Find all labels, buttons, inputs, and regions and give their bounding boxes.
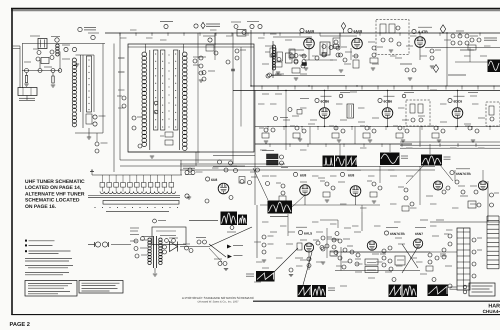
hold control box	[389, 256, 405, 271]
sound tube V3 leads	[290, 49, 309, 61]
misc value labels	[254, 40, 487, 286]
agc tube label	[296, 227, 312, 235]
audio det comps	[380, 24, 401, 52]
mixer tube V2	[203, 36, 218, 55]
rowA right wires	[425, 33, 500, 86]
channel wafer bar1	[88, 196, 180, 198]
power wires	[111, 244, 131, 246]
channel strip top wire	[90, 170, 182, 175]
rowB comps a	[259, 128, 275, 143]
volume diag wire	[210, 226, 252, 246]
tuner bottom comps	[132, 116, 154, 158]
diag X vert	[402, 244, 418, 273]
vmult wires	[430, 170, 500, 222]
power input comps	[134, 239, 147, 258]
rowC bottom wires	[341, 251, 457, 253]
rowA misc text	[400, 64, 466, 80]
IF input comps	[268, 52, 309, 77]
strip right vert	[180, 160, 182, 175]
component row junction	[25, 69, 62, 73]
wire mixer drop	[198, 33, 215, 55]
coil L3 lower	[72, 112, 83, 128]
ground g1	[75, 64, 79, 66]
switch wafer S1C	[161, 50, 165, 130]
rowA junction dots	[250, 32, 447, 86]
sync phase tube V11	[340, 170, 361, 196]
wire vert x233	[198, 33, 233, 164]
IF input coil	[272, 37, 312, 78]
balun T1	[38, 39, 47, 49]
cap C6 top	[231, 22, 241, 29]
svg-text:CHUA4•: CHUA4•	[483, 309, 500, 314]
mixer coil L4 ladder	[142, 50, 150, 150]
sound det tube V12	[297, 240, 324, 252]
IF xfmr T2	[347, 104, 354, 118]
rf response label	[189, 220, 218, 222]
channel selector coils	[100, 187, 176, 194]
wire rowA vert left	[250, 30, 252, 86]
wire rowB low bus	[255, 143, 412, 145]
vmult tube V15	[433, 181, 450, 194]
svg-text:©Howard W. Sams & Co., Inc. 19: ©Howard W. Sams & Co., Inc. 1957	[197, 300, 239, 303]
rowB left wires	[255, 91, 286, 171]
sound comps cluster2	[289, 49, 305, 80]
vert osc tube V13	[367, 241, 376, 250]
rowB comps b	[290, 126, 306, 141]
rowA left circle	[266, 74, 282, 78]
sync comps c	[367, 181, 382, 203]
rf misc labels	[24, 36, 70, 67]
sound comps cluster3	[315, 46, 347, 72]
rowA right comps1	[451, 31, 469, 45]
RF amp tube label V1	[78, 27, 96, 31]
on-off volume labels	[130, 228, 144, 241]
wire ladder rail	[76, 55, 95, 112]
resistor R4	[51, 73, 55, 88]
video IF tube V8 6DC6	[448, 96, 465, 118]
mixer label	[194, 22, 220, 28]
wire rowB top bus	[233, 90, 500, 92]
svg-text:ALTERNATE VHF TUNER: ALTERNATE VHF TUNER	[25, 191, 85, 197]
hv cage box	[463, 283, 495, 296]
svg-text:6AU8: 6AU8	[306, 29, 315, 33]
bias pair	[214, 259, 228, 271]
switch center shaft dots	[168, 55, 171, 128]
tuner block top wires	[128, 44, 254, 52]
wire trunk x114	[113, 44, 115, 173]
border frame left rule	[11, 8, 13, 315]
tuner block outline	[128, 44, 254, 152]
channel strip ticks	[95, 207, 179, 208]
switch wafer S1A	[87, 56, 92, 112]
svg-text:A PHOTOFACT STANDARD NOTATION: A PHOTOFACT STANDARD NOTATION SCHEMATIC	[182, 296, 255, 300]
switch wafer S1B	[154, 50, 158, 130]
sound IF tube V4 6AU8	[348, 28, 362, 48]
rowB mid labels	[274, 93, 479, 121]
vmult label	[450, 169, 471, 176]
power mid comps	[183, 244, 193, 253]
rowB comps d	[360, 126, 376, 142]
notes paragraph 1	[25, 259, 72, 261]
wire RF top bus	[22, 43, 105, 45]
volume control	[430, 49, 441, 68]
svg-text:LOCATED ON PAGE 14,: LOCATED ON PAGE 14,	[25, 185, 82, 191]
channel selector contacts	[100, 175, 174, 187]
capacitor C2	[36, 57, 40, 61]
svg-text:6DC6: 6DC6	[454, 100, 463, 104]
power transformer T5	[142, 236, 162, 276]
global vertical trunks	[255, 91, 430, 206]
footer rule right	[253, 300, 500, 302]
rowA right comps2	[468, 36, 481, 50]
diamond net marker B	[433, 65, 438, 73]
wire rowB mid bus	[255, 126, 500, 128]
svg-text:6AU8: 6AU8	[354, 29, 363, 33]
sound up wires	[320, 212, 362, 231]
net arrow LOTR	[227, 245, 243, 249]
wire vert x241	[215, 33, 241, 127]
flyback comps	[444, 234, 482, 288]
IF xfmr T3 box	[406, 100, 430, 126]
sync comps a	[276, 183, 286, 201]
rowB comps e	[393, 126, 409, 142]
wire rowB extra rules	[400, 142, 500, 148]
svg-text:6SN7: 6SN7	[415, 232, 423, 236]
svg-text:6AL5: 6AL5	[304, 231, 312, 235]
rowA right text	[460, 38, 497, 50]
rowB comps g	[465, 126, 479, 142]
fine tuning circle	[247, 22, 262, 29]
waveform W4	[421, 155, 451, 166]
diag wire det-W7	[272, 248, 298, 274]
waveform W7	[246, 271, 275, 282]
video amp comps2	[187, 168, 270, 203]
switch wafer S1D	[174, 50, 178, 130]
rowB comps f	[429, 126, 445, 142]
takeoff comps right	[327, 228, 350, 258]
mixer comps col	[193, 56, 203, 82]
power diag wires	[209, 244, 226, 262]
resistor R1	[41, 58, 49, 64]
vert comps row1	[338, 246, 392, 269]
note UHF tuner location text	[25, 179, 85, 210]
rowB left sound ctrl	[262, 151, 288, 168]
svg-text:6CB6: 6CB6	[321, 100, 330, 104]
UHF antenna receptacle box	[18, 88, 37, 96]
osc coil L5 ladder	[180, 50, 187, 150]
sound wires mid	[271, 33, 357, 76]
diag wire det-W8	[303, 252, 312, 285]
diag wire 2	[292, 195, 305, 207]
sound comps cluster4	[353, 46, 383, 70]
sync comps b	[320, 181, 335, 202]
speaker waveform box W1	[488, 60, 500, 73]
resistor R3	[24, 73, 28, 87]
waveform W5 response curve	[221, 212, 248, 226]
vert wires	[288, 205, 430, 271]
svg-text:6U8: 6U8	[348, 173, 354, 177]
sync wires	[260, 195, 380, 205]
diamond net marker A	[440, 25, 445, 33]
row separator wires	[213, 166, 435, 168]
rowB tube drops	[325, 91, 458, 127]
wire antenna twin lead	[13, 44, 23, 89]
channel wafer bar2	[103, 201, 179, 205]
rowB comps c	[329, 126, 345, 142]
rowB junctions	[285, 90, 458, 127]
border frame bottom rule	[11, 314, 500, 316]
height control boxes	[365, 259, 378, 273]
video amp comps	[185, 160, 238, 175]
wire rowC bus1	[180, 169, 435, 171]
vmult tube V16	[474, 181, 488, 194]
svg-text:PAGE 2: PAGE 2	[10, 322, 30, 328]
tube V1 6BK7B	[88, 33, 99, 40]
audio det dashed box	[376, 20, 409, 55]
wire trunk x120	[119, 33, 121, 160]
channel strip caption	[106, 211, 169, 213]
svg-text:SCHEMATIC LOCATED: SCHEMATIC LOCATED	[25, 198, 80, 204]
sound det comps	[289, 236, 329, 277]
AC plug	[88, 242, 109, 247]
vmult right rail	[488, 181, 499, 222]
waveform W4 diagonals	[406, 165, 453, 184]
IF tube1 right comps	[322, 40, 343, 57]
vmult comps left	[398, 187, 414, 211]
fine tuning comp	[183, 166, 195, 198]
PAGE 2 footer label	[10, 322, 30, 328]
extra value labels	[118, 30, 491, 266]
cap C8	[226, 60, 235, 71]
wire rowA bus	[251, 85, 500, 87]
capacitor C5	[72, 47, 76, 51]
svg-text:6SN7GTB: 6SN7GTB	[456, 172, 471, 176]
tuner label 1	[160, 22, 173, 29]
ladder bottom comps	[95, 133, 108, 153]
vert right comps	[420, 220, 446, 271]
vert comps left	[327, 237, 337, 256]
svg-text:ON PAGE 16.: ON PAGE 16.	[25, 204, 57, 210]
footer credit line	[182, 296, 255, 304]
resistor R9	[237, 30, 246, 37]
IF xfmr T4 box	[486, 102, 500, 126]
volume control box	[152, 219, 186, 244]
notes paragraph 2	[25, 265, 73, 267]
waveform W8	[298, 285, 336, 297]
wire interconnect	[22, 52, 60, 71]
resistor R2	[50, 50, 54, 60]
svg-text:A 4TB: A 4TB	[418, 30, 428, 34]
wire main top bus	[105, 32, 500, 34]
svg-text:6U8: 6U8	[211, 178, 217, 182]
waveform group W2	[323, 156, 358, 168]
waveform W3	[380, 153, 408, 166]
flyback transformer	[457, 228, 470, 290]
tuner inner resistor	[160, 132, 173, 145]
capacitor C1	[33, 49, 41, 55]
waveform W10	[428, 278, 457, 297]
UHF ant receptacle label	[19, 98, 35, 100]
coil L2 ladder	[72, 55, 83, 112]
legend bullet notes	[25, 240, 71, 254]
sync sep tube V10	[293, 170, 310, 195]
notes table box left	[25, 281, 77, 297]
vert osc label	[384, 227, 405, 235]
brand name bottom right	[483, 304, 500, 315]
svg-text:UHF TUNER SCHEMATIC: UHF TUNER SCHEMATIC	[25, 179, 85, 185]
video IF tube V6 6CB6	[315, 96, 332, 118]
sound IF tube V3 6AU8	[300, 28, 314, 48]
video amp tube V9	[206, 177, 229, 194]
svg-text:6U8: 6U8	[300, 173, 306, 177]
wire rowC bus2	[180, 156, 285, 165]
tuner bottom wires	[120, 152, 245, 166]
sound comps cluster1	[265, 48, 282, 74]
net arrow LOTP	[228, 255, 243, 259]
svg-text:6SN7GTB: 6SN7GTB	[390, 232, 405, 236]
rectifier SR1	[163, 238, 179, 254]
trimmer cluster	[86, 114, 106, 126]
quad coil box	[333, 23, 346, 48]
vert out label	[415, 227, 426, 235]
yoke comb right edge	[487, 216, 499, 269]
oscillator label	[412, 27, 432, 34]
wire left drop	[26, 96, 28, 101]
vert comps mid	[380, 254, 392, 267]
svg-text:6CB6: 6CB6	[384, 100, 393, 104]
bus stub leads	[119, 32, 494, 147]
sound takeoff coil	[320, 42, 330, 55]
diag wire 1	[253, 168, 268, 200]
video IF tube V7 6CB6	[378, 96, 395, 118]
tuner left comps	[117, 96, 126, 108]
tuner inner caps	[154, 57, 215, 114]
vert out tube V14	[413, 239, 422, 248]
capacitor C4	[62, 45, 70, 52]
waveform W6	[268, 201, 293, 217]
notes table box right	[79, 281, 123, 294]
mixer comps col2	[235, 31, 246, 61]
notes paragraph 3	[25, 272, 69, 274]
waveform W9	[389, 278, 418, 298]
coil L1	[51, 37, 60, 57]
audio out tube V5	[415, 37, 426, 60]
vmult comps mid	[455, 180, 481, 208]
wire rf-sw bottom	[75, 44, 103, 140]
border frame top double rule	[11, 9, 500, 11]
fuse F1	[180, 238, 210, 247]
left agc comps	[257, 205, 274, 262]
